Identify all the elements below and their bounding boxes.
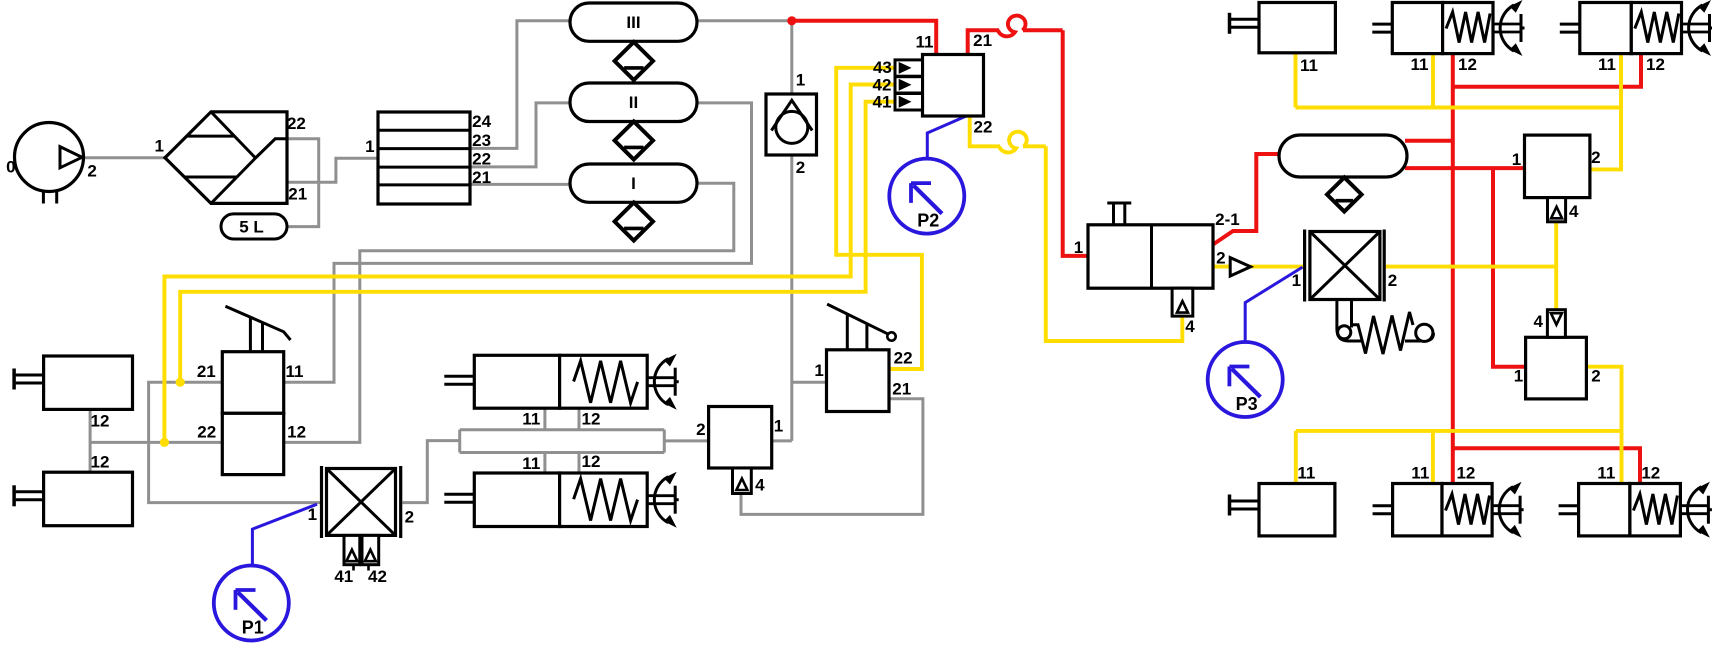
svg-text:12: 12 bbox=[91, 412, 110, 431]
wire bottom single chamber port 11 bbox=[1294, 431, 1298, 484]
foot brake valve port labels bbox=[814, 349, 912, 399]
wire check valve port 2 down to relay valve port 1 bbox=[790, 154, 793, 441]
wire protection valve port 21 to reservoir I bbox=[470, 183, 572, 186]
node junction port 41 line bbox=[176, 378, 185, 387]
svg-text:P3: P3 bbox=[1236, 394, 1258, 414]
svg-text:11: 11 bbox=[1411, 463, 1429, 482]
spring brake chamber bottom right bbox=[1559, 482, 1712, 538]
brake chamber front-left bbox=[14, 356, 132, 409]
svg-text:5 L: 5 L bbox=[239, 218, 264, 237]
svg-text:2: 2 bbox=[1216, 248, 1225, 267]
svg-text:4: 4 bbox=[755, 476, 765, 495]
svg-text:22: 22 bbox=[974, 118, 993, 137]
svg-text:43: 43 bbox=[873, 58, 892, 77]
svg-text:2: 2 bbox=[796, 158, 805, 177]
svg-text:12: 12 bbox=[91, 452, 110, 471]
relay emergency valve 1 exhaust bbox=[1548, 198, 1566, 222]
svg-text:21: 21 bbox=[197, 362, 216, 381]
svg-text:12: 12 bbox=[582, 452, 601, 471]
svg-text:2: 2 bbox=[1388, 271, 1397, 290]
top red link to right chamber port 12 bbox=[1453, 54, 1641, 87]
tristop chamber upper port labels bbox=[522, 410, 600, 429]
wire protection valve port 22 to reservoir II bbox=[470, 103, 572, 167]
svg-text:12: 12 bbox=[287, 422, 306, 441]
trailer control valve bbox=[1088, 203, 1213, 288]
four-circuit protection valve bbox=[378, 112, 470, 204]
bottom red link to right chamber port 12 bbox=[1453, 448, 1640, 483]
park brake valve bbox=[1305, 230, 1385, 302]
svg-text:4: 4 bbox=[1533, 312, 1543, 331]
svg-text:11: 11 bbox=[1598, 55, 1616, 74]
svg-text:21: 21 bbox=[288, 185, 307, 204]
svg-text:22: 22 bbox=[894, 349, 913, 368]
red vertical chamber 12 line bbox=[1451, 54, 1455, 484]
wire hand valve port 21 to release valve port 1 bbox=[149, 382, 320, 502]
wire branch down to valve2 port 1 bbox=[1493, 168, 1526, 367]
park brake valve port labels bbox=[1292, 271, 1398, 290]
hand brake valve port labels bbox=[197, 362, 306, 442]
air dryer port labels bbox=[154, 114, 307, 203]
trailer release valve bbox=[322, 466, 401, 538]
svg-text:1: 1 bbox=[814, 361, 823, 380]
svg-text:1: 1 bbox=[1292, 271, 1301, 290]
wire hand valve port 22 to left brake chambers bbox=[90, 441, 222, 444]
svg-text:I: I bbox=[631, 174, 636, 193]
svg-text:1: 1 bbox=[1514, 366, 1523, 385]
svg-text:22: 22 bbox=[287, 114, 306, 133]
wire reservoir IV to red vertical bbox=[1405, 139, 1453, 143]
svg-text:2: 2 bbox=[696, 420, 705, 439]
svg-text:2: 2 bbox=[405, 508, 414, 527]
wire top middle chamber port 11 bbox=[1431, 54, 1435, 108]
trailer release valve exhausts bbox=[344, 535, 379, 570]
svg-text:II: II bbox=[629, 93, 638, 112]
svg-text:P1: P1 bbox=[242, 618, 264, 638]
wire control block port 22 to trailer valve port 4 bbox=[970, 115, 1183, 341]
svg-text:1: 1 bbox=[1512, 150, 1521, 169]
wire release valve port 2 to manifold bbox=[403, 441, 460, 503]
trailer control valve port labels bbox=[1074, 210, 1240, 336]
svg-text:12: 12 bbox=[1456, 463, 1475, 482]
svg-text:11: 11 bbox=[1300, 56, 1318, 75]
wire bottom middle chamber port 11 bbox=[1431, 431, 1435, 484]
svg-text:1: 1 bbox=[774, 416, 783, 435]
svg-text:12: 12 bbox=[1646, 55, 1665, 74]
wire reservoir I to hand brake valve port 12 bbox=[284, 183, 734, 442]
regeneration reservoir 5L bbox=[221, 214, 287, 239]
svg-text:2-1: 2-1 bbox=[1215, 210, 1240, 229]
svg-text:4: 4 bbox=[1185, 317, 1195, 336]
relay emergency valve 1 bbox=[1525, 135, 1590, 198]
coupling coil yellow bbox=[999, 132, 1027, 153]
compressor port labels bbox=[6, 158, 97, 181]
park brake valve detent mechanism bbox=[1337, 300, 1434, 355]
svg-text:1: 1 bbox=[796, 71, 805, 90]
bottom yellow bus to chamber ports 11 bbox=[1296, 429, 1622, 433]
reservoir II bbox=[570, 83, 697, 122]
svg-text:11: 11 bbox=[286, 362, 304, 381]
trailer control valve outlet nozzle bbox=[1230, 258, 1250, 276]
gauge P3 bbox=[1208, 342, 1283, 417]
svg-text:2: 2 bbox=[1591, 148, 1600, 167]
svg-text:11: 11 bbox=[1411, 55, 1429, 74]
wire into relay valve port 1 bbox=[772, 439, 792, 442]
svg-text:11: 11 bbox=[522, 454, 540, 473]
wire port 41 to hand valve port 21 line bbox=[180, 102, 896, 383]
wire gauge P3 to park valve port 1 bbox=[1245, 267, 1302, 342]
relay emergency valve 2 port labels bbox=[1514, 312, 1601, 386]
relay valve exhaust bbox=[733, 468, 752, 494]
spring brake chamber top right bbox=[1560, 0, 1712, 56]
svg-text:1: 1 bbox=[1074, 238, 1083, 257]
hand brake valve bbox=[222, 306, 290, 474]
svg-text:1: 1 bbox=[365, 137, 374, 156]
wire park valve port 2 to exhaust line of valves bbox=[1386, 265, 1556, 269]
check valve port labels bbox=[796, 71, 805, 178]
wire trailer valve port 2-1 to reservoir IV bbox=[1213, 154, 1281, 245]
svg-text:42: 42 bbox=[368, 567, 387, 586]
compressor bbox=[15, 123, 84, 204]
brake chamber bottom single port label bbox=[1297, 463, 1315, 482]
wire branch to foot brake valve port 1 bbox=[792, 381, 827, 384]
trailer control block port labels bbox=[873, 31, 993, 137]
svg-text:21: 21 bbox=[892, 380, 911, 399]
drain valve reservoir II bbox=[615, 122, 653, 160]
trailer control valve exhaust bbox=[1172, 288, 1193, 316]
spring brake chamber top middle bbox=[1372, 0, 1524, 56]
drain valve reservoir IV bbox=[1327, 177, 1362, 211]
spring brake chamber bottom middle port labels bbox=[1411, 463, 1475, 482]
svg-text:22: 22 bbox=[197, 422, 216, 441]
reservoir III bbox=[570, 3, 697, 41]
wire gauge P1 to release valve port 1 bbox=[252, 504, 317, 566]
wire protection valve port 23 to reservoir III bbox=[470, 21, 572, 149]
brake chamber front-left 2 bbox=[14, 472, 132, 526]
wire stub lower tristop port 11 bbox=[543, 453, 546, 474]
trailer control block bbox=[895, 55, 984, 117]
trailer release valve port labels bbox=[308, 505, 414, 586]
node junction port 42 line bbox=[160, 438, 169, 447]
brake chamber front-left 2 port label bbox=[91, 452, 110, 471]
svg-text:2: 2 bbox=[87, 162, 96, 181]
air dryer bbox=[165, 112, 287, 204]
wire stub upper tristop port 12 bbox=[578, 408, 581, 430]
brake chamber top single bbox=[1230, 3, 1336, 53]
wire trailer valve port 2 to park valve bbox=[1213, 265, 1304, 269]
relay emergency valve 2 bbox=[1526, 337, 1587, 399]
wire valve port 4 to valve port 4 vertical bbox=[1554, 222, 1558, 310]
wire gauge P2 to control block bbox=[927, 116, 965, 158]
wire foot valve port 22 to port 43 bbox=[836, 68, 922, 369]
svg-text:4: 4 bbox=[1569, 202, 1579, 221]
relay emergency valve 2 exhaust bbox=[1547, 310, 1565, 338]
svg-text:11: 11 bbox=[1297, 463, 1315, 482]
wire valve1 port 2 up to top yellow bus bbox=[1590, 54, 1621, 170]
wire valve2 port 2 down to bottom yellow bus bbox=[1586, 367, 1621, 484]
wire dryer port 21 to protection valve port 1 bbox=[287, 158, 378, 182]
svg-text:12: 12 bbox=[1458, 55, 1477, 74]
wire control block port 21 to trailer valve port 1 bbox=[968, 30, 1088, 256]
top yellow bus to chamber ports 11 bbox=[1296, 106, 1622, 110]
reservoir IV bbox=[1279, 135, 1407, 177]
wire compressor to air dryer bbox=[84, 156, 165, 159]
spring brake chamber top right port labels bbox=[1598, 55, 1665, 74]
spring brake chamber bottom middle bbox=[1373, 482, 1524, 538]
spring brake chamber bottom right port labels bbox=[1597, 463, 1660, 482]
protection valve port labels bbox=[365, 112, 492, 187]
svg-text:24: 24 bbox=[472, 112, 491, 131]
svg-text:11: 11 bbox=[916, 33, 934, 52]
svg-text:41: 41 bbox=[873, 93, 892, 112]
svg-text:P2: P2 bbox=[917, 211, 939, 231]
gauge P1 bbox=[214, 566, 289, 641]
wire top single chamber port 11 bbox=[1294, 53, 1298, 108]
relay valve bbox=[709, 407, 772, 469]
tristop chamber upper bbox=[444, 354, 678, 410]
svg-text:1: 1 bbox=[154, 137, 163, 156]
wire junction to check valve port 1 bbox=[790, 21, 793, 95]
tristop chamber lower bbox=[444, 472, 678, 528]
wire stub lower tristop port 12 bbox=[578, 453, 581, 474]
node junction reservoir III / supply bbox=[787, 16, 796, 25]
spring brake chamber top middle port labels bbox=[1411, 55, 1477, 74]
svg-text:1: 1 bbox=[308, 505, 317, 524]
brake chamber top single port label bbox=[1300, 56, 1318, 75]
gauge P2 bbox=[889, 159, 964, 234]
tristop chamber lower port labels bbox=[522, 452, 600, 473]
wire stub upper tristop port 11 bbox=[543, 408, 546, 430]
wire dryer port 22 to 5L reservoir bbox=[287, 139, 319, 227]
wire between left brake chambers bbox=[89, 409, 92, 472]
wire reservoir IV to valve1 port 1 bbox=[1405, 166, 1525, 170]
wire reservoir II to hand brake valve port 11 bbox=[284, 103, 752, 382]
brake chamber front-left port label bbox=[91, 412, 110, 431]
relay valve port labels bbox=[696, 416, 783, 494]
wire port 42 to hand valve circuit bbox=[164, 85, 896, 443]
check valve bbox=[766, 94, 817, 155]
svg-text:0: 0 bbox=[6, 158, 15, 177]
svg-text:2: 2 bbox=[1591, 366, 1600, 385]
svg-text:12: 12 bbox=[1641, 463, 1660, 482]
drain valve reservoir III bbox=[615, 42, 653, 80]
svg-text:11: 11 bbox=[1597, 463, 1615, 482]
relay emergency valve 1 port labels bbox=[1512, 148, 1601, 221]
manifold bus to tristop chambers bbox=[460, 430, 709, 453]
svg-text:21: 21 bbox=[973, 31, 992, 50]
wire foot valve port 21 to relay valve port 4 bbox=[741, 399, 923, 515]
drain valve reservoir I bbox=[615, 203, 653, 241]
svg-text:12: 12 bbox=[582, 410, 601, 429]
wire reservoir III to junction node bbox=[695, 19, 792, 22]
svg-text:III: III bbox=[626, 13, 640, 32]
foot brake valve bbox=[827, 304, 896, 411]
svg-text:41: 41 bbox=[334, 567, 353, 586]
svg-text:21: 21 bbox=[472, 168, 491, 187]
reservoir I bbox=[570, 164, 697, 202]
svg-text:23: 23 bbox=[472, 131, 491, 150]
svg-text:11: 11 bbox=[522, 410, 540, 429]
coupling coil red bbox=[998, 16, 1026, 37]
wire junction to control block port 11 bbox=[792, 21, 936, 55]
svg-text:22: 22 bbox=[472, 150, 491, 169]
brake chamber bottom single bbox=[1230, 484, 1335, 536]
